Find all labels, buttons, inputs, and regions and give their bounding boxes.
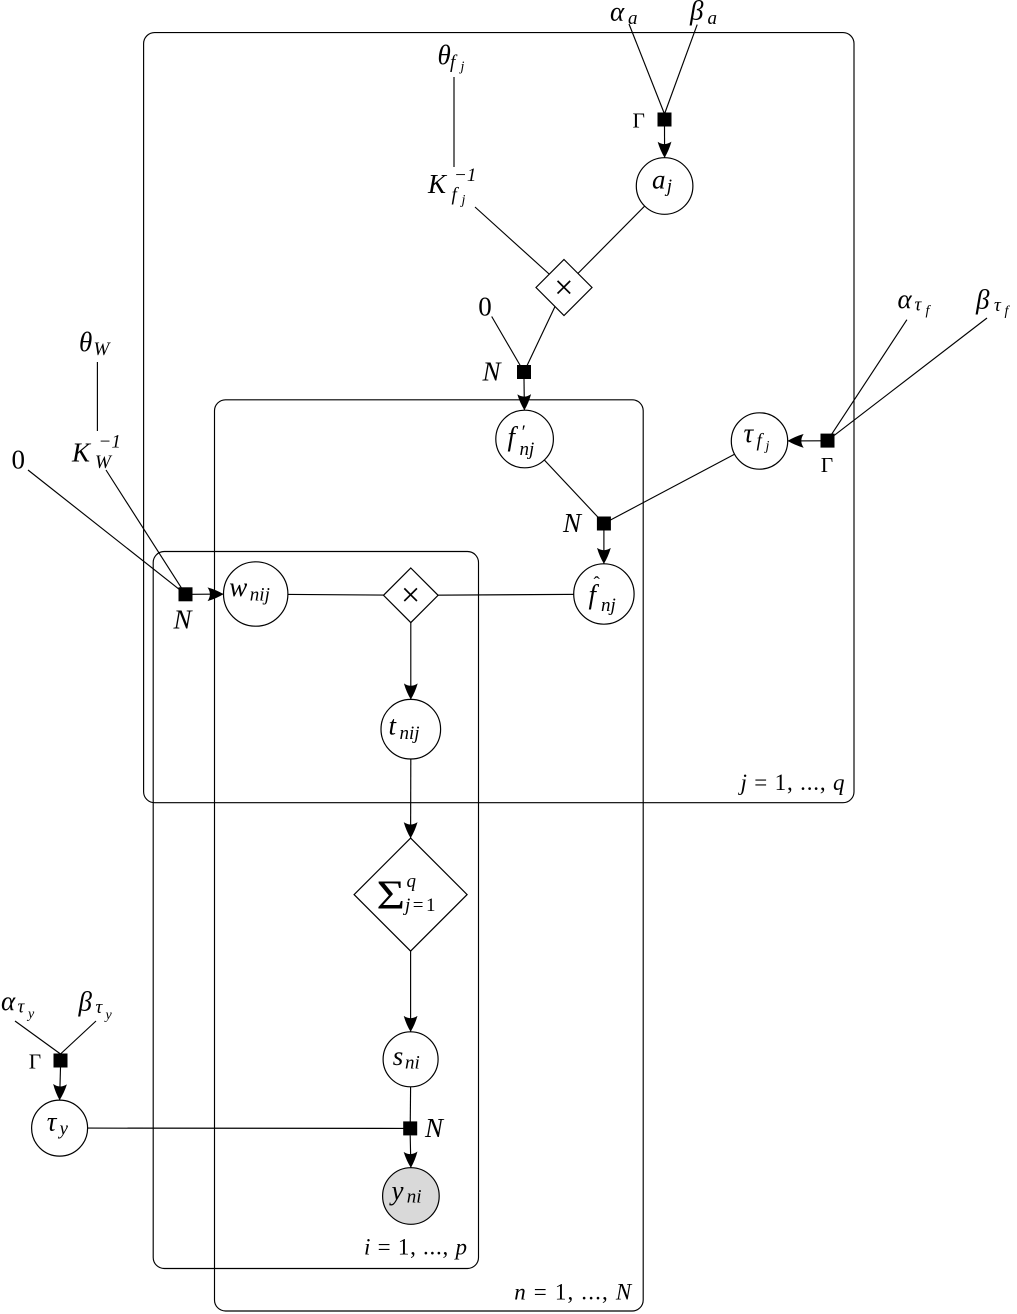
- svg-text:−1: −1: [454, 165, 476, 186]
- svg-text:i = 1, ..., p: i = 1, ..., p: [364, 1234, 467, 1259]
- svg-text:W: W: [95, 452, 113, 473]
- svg-text:Γ: Γ: [29, 1049, 41, 1073]
- svg-text:α: α: [1, 986, 16, 1016]
- svg-text:0: 0: [12, 445, 26, 475]
- svg-text:θ: θ: [79, 327, 92, 357]
- svg-text:W: W: [94, 339, 112, 360]
- svg-text:f: f: [926, 304, 932, 319]
- svg-text:j: j: [460, 193, 466, 208]
- svg-text:f: f: [1005, 304, 1011, 319]
- svg-text:ˆ: ˆ: [594, 574, 601, 595]
- svg-text:j = 1, ..., q: j = 1, ..., q: [738, 770, 845, 795]
- svg-text:β: β: [689, 0, 704, 25]
- svg-text:y: y: [26, 1007, 35, 1022]
- svg-text:θ: θ: [438, 40, 451, 70]
- svg-text:y: y: [104, 1008, 113, 1023]
- svg-text:0: 0: [478, 292, 492, 322]
- svg-text:τ: τ: [744, 418, 755, 448]
- svg-text:α: α: [610, 0, 625, 26]
- svg-text:nj: nj: [520, 439, 535, 460]
- svg-text:Γ: Γ: [633, 108, 645, 132]
- svg-text:τ: τ: [18, 997, 26, 1018]
- svg-text:N: N: [424, 1113, 445, 1143]
- svg-text:nij: nij: [250, 584, 270, 605]
- svg-text:y: y: [389, 1175, 404, 1205]
- svg-text:a: a: [652, 165, 666, 195]
- svg-text:N: N: [173, 604, 194, 634]
- svg-text:j=1: j=1: [402, 895, 438, 916]
- svg-text:τ: τ: [47, 1107, 58, 1137]
- svg-text:s: s: [393, 1041, 404, 1071]
- svg-text:a: a: [708, 8, 718, 29]
- svg-text:τ: τ: [915, 295, 923, 316]
- svg-text:τ: τ: [994, 295, 1002, 316]
- svg-text:K: K: [71, 438, 92, 468]
- svg-text:q: q: [407, 871, 417, 892]
- svg-text:n = 1, ..., N: n = 1, ..., N: [514, 1279, 633, 1304]
- svg-text:nij: nij: [400, 723, 420, 744]
- svg-text:×: ×: [401, 577, 420, 614]
- svg-text:ni: ni: [405, 1053, 420, 1074]
- svg-text:j: j: [459, 60, 465, 75]
- svg-text:−1: −1: [99, 432, 121, 453]
- svg-text:N: N: [562, 508, 583, 538]
- svg-text:×: ×: [554, 269, 573, 306]
- svg-text:α: α: [898, 284, 913, 314]
- svg-text:f: f: [450, 52, 458, 73]
- svg-text:f: f: [452, 185, 460, 206]
- svg-text:Σ: Σ: [377, 872, 406, 918]
- svg-text:N: N: [482, 357, 503, 387]
- svg-text:K: K: [427, 169, 448, 199]
- svg-text:y: y: [58, 1119, 69, 1140]
- svg-text:a: a: [628, 8, 638, 29]
- svg-text:β: β: [78, 987, 93, 1017]
- svg-text:β: β: [975, 285, 990, 315]
- svg-text:Γ: Γ: [821, 453, 833, 477]
- svg-text:τ: τ: [96, 997, 104, 1018]
- svg-text:nj: nj: [601, 595, 616, 616]
- svg-text:w: w: [229, 572, 247, 602]
- svg-text:ni: ni: [407, 1186, 422, 1207]
